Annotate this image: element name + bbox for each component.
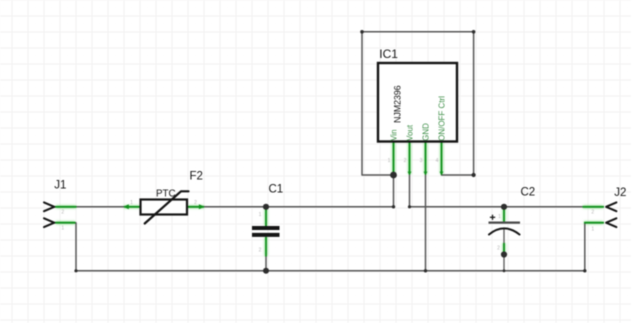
svg-text:ON/OFF Ctrl: ON/OFF Ctrl — [437, 96, 446, 141]
svg-text:2: 2 — [497, 246, 500, 252]
svg-text:1: 1 — [498, 214, 501, 220]
svg-text:3: 3 — [420, 158, 423, 164]
svg-text:F2: F2 — [190, 171, 203, 183]
svg-text:NJM2396: NJM2396 — [392, 85, 402, 123]
svg-text:1: 1 — [388, 158, 391, 164]
svg-text:4: 4 — [436, 158, 439, 164]
svg-text:2: 2 — [404, 158, 407, 164]
svg-text:1: 1 — [259, 212, 262, 218]
svg-text:1: 1 — [61, 226, 64, 232]
svg-text:J2: J2 — [614, 187, 626, 199]
svg-text:GND: GND — [421, 123, 430, 141]
svg-text:2: 2 — [61, 210, 64, 216]
svg-text:Vin: Vin — [389, 129, 398, 140]
svg-text:1: 1 — [130, 200, 133, 206]
svg-text:2: 2 — [591, 210, 594, 216]
svg-text:1: 1 — [591, 227, 594, 233]
svg-text:C1: C1 — [269, 183, 284, 195]
svg-text:IC1: IC1 — [379, 47, 398, 61]
svg-text:2: 2 — [194, 200, 197, 206]
svg-text:Vout: Vout — [405, 124, 414, 141]
svg-text:PTC: PTC — [156, 188, 176, 199]
svg-text:J1: J1 — [54, 180, 66, 192]
svg-text:C2: C2 — [521, 187, 536, 199]
svg-text:2: 2 — [259, 248, 262, 254]
